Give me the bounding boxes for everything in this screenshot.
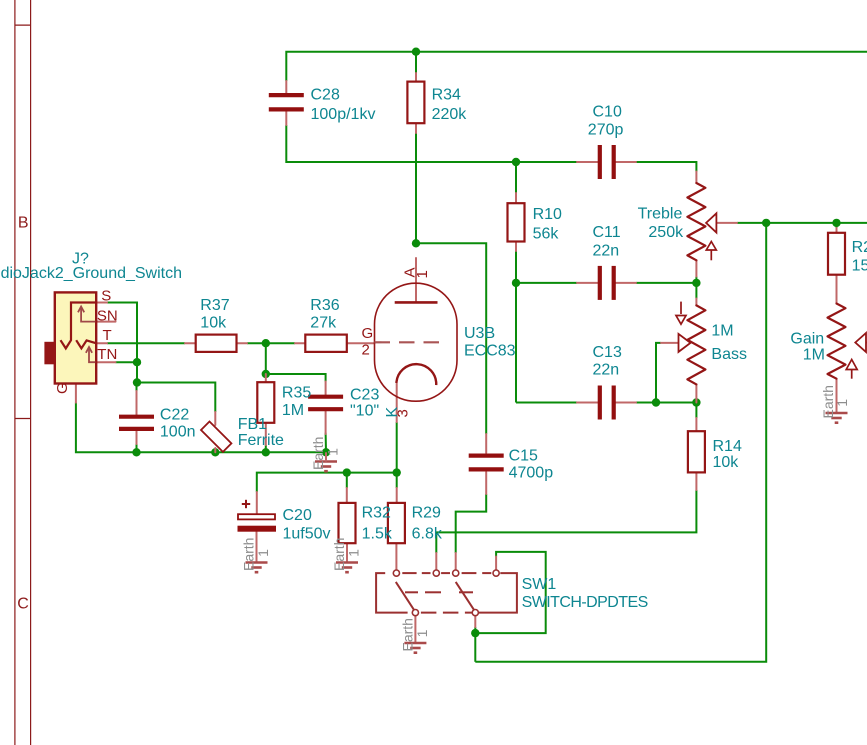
wire cathode rail to C20 — [257, 473, 397, 492]
svg-text:T: T — [103, 327, 112, 344]
pin jack SN — [96, 321, 115, 323]
pin switch contact B2 — [455, 553, 457, 570]
svg-text:22n: 22n — [593, 362, 620, 379]
wire switch common2 down to bottom return — [474, 633, 476, 662]
svg-text:C20: C20 — [283, 507, 312, 524]
capacitor C23 plates — [308, 395, 343, 399]
pin C28 bottom — [285, 112, 287, 126]
wire R34 top stub — [415, 52, 417, 73]
pin C15 top — [485, 434, 487, 453]
svg-text:C13: C13 — [593, 344, 622, 361]
svg-text:ECC83: ECC83 — [464, 343, 516, 360]
wire C22 top stub — [136, 383, 138, 392]
pin switch contact B1 — [435, 553, 437, 570]
capacitor C20 polarized top plate — [238, 514, 275, 519]
wire jack G down and ground bus — [76, 403, 326, 453]
pin C13 right — [616, 402, 637, 404]
svg-text:B: B — [18, 214, 29, 231]
wire C13 rail left — [516, 402, 577, 404]
pin FB1 top — [214, 412, 216, 425]
wire R10 bottom to C11 rail — [515, 251, 517, 283]
wire T node to R35/C23 branch — [266, 343, 326, 381]
pin R32 top — [346, 488, 348, 503]
pin R2x top — [836, 228, 838, 233]
pin R37 left — [185, 342, 196, 344]
junction node R35 ground — [262, 448, 270, 456]
connector J sleeve lug — [44, 342, 54, 365]
pin R29 bottom — [395, 543, 397, 570]
svg-text:R29: R29 — [412, 505, 441, 522]
svg-text:150k: 150k — [852, 257, 867, 274]
switch SW1 right bracket — [479, 573, 517, 613]
svg-text:S: S — [101, 287, 111, 304]
svg-text:R32: R32 — [362, 505, 391, 522]
capacitor C11 plates — [598, 266, 602, 300]
ground earth under switch common1 — [399, 618, 430, 653]
tube U3B anode plate — [395, 301, 438, 304]
junction node T-R35 — [262, 339, 270, 347]
pin R10 bottom — [515, 242, 517, 252]
wire C23 bottom stub — [325, 433, 327, 453]
svg-text:270p: 270p — [588, 122, 624, 139]
wire R14 top stub — [695, 403, 697, 419]
ferrite bead FB1 — [201, 421, 231, 451]
wire Bass wiper to C13 rail — [656, 343, 661, 403]
svg-text:G: G — [362, 325, 374, 342]
svg-text:1.5k: 1.5k — [362, 525, 393, 542]
svg-text:FB1: FB1 — [238, 416, 267, 433]
wire C11 rail left — [516, 282, 577, 284]
svg-text:SWITCH-DPDTES: SWITCH-DPDTES — [522, 594, 648, 611]
switch SW1 bottom dashed row — [421, 612, 472, 614]
wire jack T to R37 — [107, 342, 185, 344]
resistor R35 — [257, 382, 274, 423]
wire Gain top stub — [836, 223, 838, 228]
potentiometer Treble zigzag — [687, 183, 705, 260]
wire jack S to TN column — [107, 303, 137, 383]
svg-text:1: 1 — [834, 399, 850, 407]
potentiometer Gain wiper arrow — [855, 333, 866, 352]
wire C28 bottom to y162 rail — [286, 125, 577, 162]
pin C11 right — [616, 282, 637, 284]
junction node R35-C23 — [262, 370, 270, 378]
capacitor C20 plus sign — [242, 500, 250, 508]
wire C11 rail right to Treble/Bass node — [636, 282, 696, 284]
svg-text:2: 2 — [362, 341, 370, 358]
frame row tick A/B — [15, 24, 31, 26]
pin switch common2 — [474, 616, 476, 627]
pin C20 bottom earth — [256, 532, 258, 563]
pin C13 left — [577, 402, 598, 404]
pin R36 left — [295, 342, 305, 344]
pin tube cathode — [396, 384, 398, 422]
svg-text:TN: TN — [97, 346, 117, 363]
pin R35 top — [265, 374, 267, 383]
capacitor C28 plates — [269, 93, 304, 97]
wire y162 rail right of C10 to Treble top — [636, 162, 696, 172]
pin FB1 bottom — [214, 448, 216, 452]
pin C22 top — [136, 391, 138, 415]
svg-text:C11: C11 — [593, 224, 621, 241]
wire R34 bottom to anode node — [415, 133, 417, 243]
pin C22 bottom — [136, 431, 138, 444]
svg-text:C22: C22 — [160, 406, 189, 423]
sheet frame left inner border line — [30, 0, 32, 745]
connector J TN switch arrow — [86, 347, 95, 362]
wire R35 bottom stub — [265, 445, 267, 452]
pin R29 top — [396, 488, 398, 503]
pin tube grid / R36 right — [347, 342, 375, 344]
capacitor C20 polarized bottom plate — [238, 526, 277, 532]
wire R10 top stub — [515, 162, 517, 193]
junction node S-TN — [133, 358, 141, 366]
svg-text:100n: 100n — [160, 423, 196, 440]
wire C13 rail right — [636, 402, 696, 404]
ground earth under C20 — [241, 538, 272, 573]
svg-text:22n: 22n — [593, 243, 620, 260]
resistor R34 — [407, 82, 424, 124]
ground earth under R32 — [331, 538, 362, 573]
potentiometer Gain direction arrow — [846, 360, 857, 379]
svg-text:U3B: U3B — [464, 325, 495, 342]
pin Treble bottom — [695, 260, 697, 276]
junction node C23 ground — [322, 448, 330, 456]
pin Treble wiper — [716, 222, 737, 224]
junction node C11 right — [692, 279, 700, 287]
svg-text:1M: 1M — [803, 346, 825, 363]
junction node FB1 ground — [211, 448, 219, 456]
potentiometer Bass zigzag — [687, 305, 705, 384]
svg-text:1: 1 — [325, 448, 341, 456]
svg-text:R35: R35 — [282, 385, 311, 402]
frame row tick B/C — [15, 418, 31, 420]
tube U3B envelope — [375, 283, 458, 401]
pin R2x bottom to Gain top — [836, 275, 838, 304]
svg-text:R34: R34 — [432, 86, 461, 103]
svg-text:1: 1 — [346, 549, 362, 557]
pin R34 top — [415, 73, 417, 82]
wire C15 bottom to switch contact B2 — [456, 494, 487, 553]
wire vertical x516 down to C13 rail — [515, 283, 517, 403]
resistor R32 — [339, 503, 356, 543]
pin R37 right — [237, 342, 248, 344]
pin Gain bottom earth — [836, 379, 838, 413]
wire R29 top stub — [396, 473, 398, 488]
switch SW1 contact circle 4 — [493, 570, 499, 576]
pin R34 bottom — [415, 123, 417, 133]
pin C10 right — [616, 161, 637, 163]
wire cathode down to R29 node — [396, 422, 398, 473]
svg-text:C: C — [17, 596, 29, 613]
wire Treble wiper to right column — [737, 222, 867, 224]
wire switch common2 loop to contact B3 — [475, 552, 545, 633]
pin C28 top — [285, 81, 287, 93]
pin C23 bottom — [325, 411, 327, 434]
wire Bass top stub — [695, 283, 697, 299]
junction node at anode — [412, 239, 420, 247]
pin jack G — [75, 384, 77, 403]
resistor R29 — [388, 503, 405, 543]
pin jack S — [96, 302, 107, 304]
svg-text:SN: SN — [97, 308, 118, 325]
pin C20 top — [256, 492, 258, 514]
svg-text:R14: R14 — [713, 438, 742, 455]
potentiometer Bass wiper arrow — [679, 334, 691, 352]
switch SW1 contact circle 3 — [453, 570, 459, 576]
svg-text:1M: 1M — [711, 322, 733, 339]
capacitor C13 plates — [598, 386, 602, 420]
switch SW1 common circle 1 — [412, 610, 418, 616]
switch SW1 top dashed row — [402, 572, 491, 574]
svg-text:C15: C15 — [509, 448, 538, 465]
pin jack TN — [96, 361, 115, 363]
svg-text:1: 1 — [414, 270, 431, 278]
svg-text:10k: 10k — [200, 314, 227, 331]
pin R14 bottom — [695, 472, 697, 490]
resistor R10 — [508, 203, 525, 241]
potentiometer Treble direction arrow — [706, 242, 716, 261]
capacitor C22 plates — [119, 415, 154, 419]
svg-text:1: 1 — [255, 549, 271, 557]
svg-text:1: 1 — [414, 629, 430, 637]
svg-text:100p/1kv: 100p/1kv — [311, 106, 376, 123]
svg-text:C23: C23 — [350, 386, 379, 403]
pin C15 bottom — [485, 472, 487, 494]
svg-text:R36: R36 — [310, 297, 339, 314]
pin Treble top — [695, 172, 697, 184]
junction node R2x top — [832, 219, 840, 227]
potentiometer Gain zigzag — [828, 304, 846, 379]
pin Gain wiper — [866, 342, 867, 344]
wire node to FB1 top — [137, 383, 215, 413]
junction node bass bottom R14 — [692, 398, 700, 406]
svg-text:C10: C10 — [593, 103, 622, 120]
junction node C11 left — [512, 279, 520, 287]
switch SW1 contact circle 1 — [393, 570, 399, 576]
potentiometer Bass direction arrow — [676, 302, 686, 325]
svg-text:1M: 1M — [282, 402, 304, 419]
pin tube anode — [415, 258, 417, 302]
capacitor C15 plates — [469, 454, 504, 458]
svg-text:R10: R10 — [533, 206, 562, 223]
resistor R14 — [688, 431, 705, 472]
pin Bass bottom — [695, 384, 697, 402]
svg-text:1uf50v: 1uf50v — [283, 525, 331, 542]
wire C22 bottom stub — [136, 444, 138, 452]
tube U3B grid dashed — [375, 341, 442, 343]
connector J SN switch arrow — [78, 307, 95, 322]
pin C11 left — [577, 282, 598, 284]
junction node R32 top — [343, 468, 351, 476]
capacitor C10 plates — [598, 145, 602, 179]
svg-text:C28: C28 — [311, 86, 340, 103]
wire anode node to C15 top — [416, 243, 486, 434]
pin jack T — [96, 342, 107, 344]
pin R32 bottom earth — [346, 543, 348, 562]
pin C23 top — [325, 382, 327, 396]
wire R37 to R36 — [247, 342, 295, 344]
junction node bass wiper — [652, 398, 660, 406]
svg-text:Ferrite: Ferrite — [238, 432, 284, 449]
wire Treble bottom stub — [695, 277, 697, 283]
connector J tip contact line — [76, 340, 96, 348]
svg-text:G: G — [54, 382, 71, 394]
resistor R36 — [305, 335, 347, 352]
junction node at R10 top — [512, 158, 520, 166]
switch SW1 contact circle 2 — [433, 570, 439, 576]
svg-text:Treble: Treble — [638, 206, 683, 223]
pin C10 left — [577, 161, 598, 163]
switch SW1 left bracket — [376, 573, 408, 613]
wire jack TN link — [116, 361, 138, 363]
sheet frame left outer border line — [14, 0, 16, 745]
svg-text:Bass: Bass — [711, 346, 747, 363]
resistor R37 — [196, 335, 237, 352]
connector J jack body — [55, 292, 96, 383]
wire top bus from C28 to right edge — [286, 52, 867, 81]
junction node treble wiper — [762, 219, 770, 227]
svg-text:SW1: SW1 — [522, 576, 557, 593]
resistor R2x — [828, 233, 845, 275]
svg-text:4700p: 4700p — [509, 464, 554, 481]
svg-text:10k: 10k — [713, 454, 740, 471]
junction node C22 ground — [132, 448, 140, 456]
tube U3B cathode arc — [396, 364, 436, 385]
svg-text:R37: R37 — [200, 297, 229, 314]
wire R32 top stub — [346, 473, 348, 488]
pin R10 top — [515, 193, 517, 204]
svg-text:56k: 56k — [533, 225, 560, 242]
potentiometer Treble wiper arrow — [706, 213, 716, 232]
pin switch contact B3 — [495, 557, 497, 570]
junction node R29 top — [393, 468, 401, 476]
switch SW1 common circle 2 — [472, 610, 478, 616]
switch SW1 lever pole1 — [396, 582, 414, 610]
junction node switch common2 — [471, 629, 479, 637]
svg-text:27k: 27k — [310, 314, 337, 331]
svg-text:250k: 250k — [648, 224, 684, 241]
wire R14 bottom to switch contact B1 — [436, 490, 696, 553]
pin R14 top — [695, 418, 697, 431]
ground earth under Gain — [820, 385, 850, 423]
pin switch common1 earth — [414, 616, 416, 643]
svg-text:220k: 220k — [432, 106, 468, 123]
svg-text:6.8k: 6.8k — [412, 525, 443, 542]
svg-text:Gain: Gain — [790, 330, 824, 347]
junction node TN-C22-FB1 — [133, 378, 141, 386]
pin Bass top — [695, 299, 697, 306]
junction node at R34 top — [412, 48, 420, 56]
switch SW1 lever pole2 — [456, 582, 475, 610]
svg-text:R27: R27 — [852, 239, 867, 256]
svg-text:"10": "10" — [350, 402, 379, 419]
pin Bass wiper — [661, 342, 679, 344]
switch SW1 coupling dashed — [405, 591, 473, 593]
svg-text:AudioJack2_Ground_Switch: AudioJack2_Ground_Switch — [0, 265, 182, 282]
connector J sleeve contact line — [61, 303, 96, 349]
wire right column down to switch common return — [475, 223, 766, 662]
ground earth at C23 node — [310, 437, 341, 472]
pin R35 bottom — [265, 423, 267, 445]
svg-text:3: 3 — [395, 409, 412, 417]
